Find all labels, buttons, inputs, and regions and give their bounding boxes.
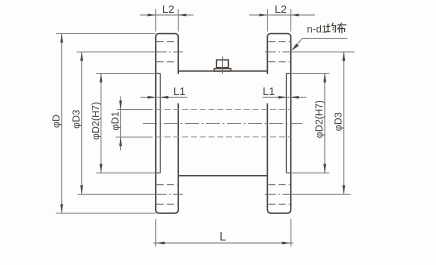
dimension line phiD3 right [343,52,345,194]
bolt hole hidden line left bottom upper [156,184,179,186]
svg-text:L2: L2 [275,4,287,16]
svg-text:L: L [219,230,226,244]
svg-text:L1: L1 [173,86,185,98]
L extension line left [155,219,157,247]
mask gap on left flange inner edge at L1 label [177,74,180,103]
dimension line phiD1 [120,97,122,151]
extension line phiD3 bottom left [78,193,156,195]
bore hidden line upper [156,109,291,111]
bolt circle center line right top [265,51,291,53]
bolt circle center line right bottom [265,193,291,195]
svg-text:L2: L2 [162,4,174,16]
L dimension line [153,242,293,244]
extension line phiD1 bottom [116,136,153,138]
extension line phiD3 top left [77,51,156,53]
L2 extension line right b [290,9,292,32]
svg-text:φD1: φD1 [111,112,122,131]
recess left bottom stub [156,172,161,174]
extension line phiD2 top left [96,72,156,74]
svg-text:φD3: φD3 [334,112,345,131]
extension line phiD top [56,33,156,35]
dimension line phiD [61,34,63,214]
bolt head [217,60,229,68]
L1 dimension line right [263,96,307,98]
extension line phiD3 bottom right [291,193,351,195]
recess right bottom stub [286,172,290,174]
bolt hole hidden line left bottom lower [156,203,179,205]
hanzi jun [326,23,336,33]
tube top edge [178,70,267,72]
leader n-d1 underline [302,37,347,39]
bolt hole hidden line left top lower [156,61,179,63]
tube bottom edge [178,175,267,177]
extension line phiD bottom [56,212,156,214]
hanzi bu [337,23,346,34]
bolt hole hidden line right bottom upper [267,184,290,186]
leader n-d1 slant [293,38,303,49]
extension line phiD2 top right [291,72,330,74]
flange left outline [156,34,179,214]
svg-text:φD2(H7): φD2(H7) [315,100,326,138]
recess right vertical [285,73,287,172]
flange right outline [267,34,290,214]
svg-text:φD3: φD3 [72,109,83,128]
bolt circle center line left top [156,51,183,53]
extension line phiD3 top right [291,51,355,53]
extension line phiD2 bottom left [96,172,156,174]
dimension line phiD3 left [81,52,83,194]
mask gap on right flange inner edge at L1 label [266,74,269,103]
dimension line phiD2 right [324,73,326,172]
L2 extension line left b [177,9,179,32]
L2 extension line right a [266,9,268,32]
bolt hole hidden line right top lower [267,61,290,63]
L2 dimension line left [140,14,194,16]
recess right top stub [286,72,290,74]
main center line [143,122,302,124]
bolt hole hidden line right bottom lower [267,203,290,205]
L2 dimension line right [249,14,315,16]
recess left vertical [159,73,161,172]
L extension line right [290,219,292,247]
bolt circle center line left bottom [156,193,183,195]
L1 dimension line left [140,96,187,98]
extension line phiD1 top [117,109,153,111]
svg-text:φD2(H7): φD2(H7) [91,102,102,140]
svg-text:n-d1: n-d1 [307,24,328,35]
svg-text:φD: φD [52,114,63,127]
extension line phiD2 bottom right [292,172,329,174]
recess left top stub [156,72,161,74]
bore hidden line lower [156,136,291,138]
svg-text:L1: L1 [263,86,275,98]
bolt hole hidden line right top upper [267,41,290,43]
dimension line phiD2 left [100,73,102,172]
L2 extension line left a [155,9,157,32]
bolt center line [222,57,224,74]
bolt base plate [214,69,231,72]
bolt hole hidden line left top upper [156,41,179,43]
